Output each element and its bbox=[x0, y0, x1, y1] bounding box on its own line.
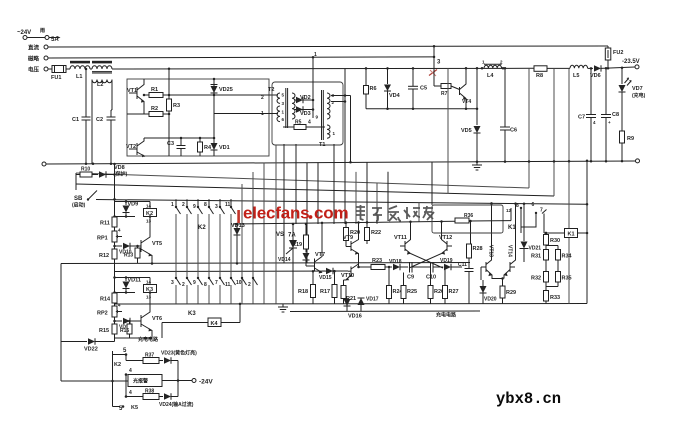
svg-text:VD7: VD7 bbox=[632, 86, 643, 92]
resistor R17 bbox=[334, 271, 336, 284]
resistor R3 bbox=[168, 69, 170, 99]
node left terminal bbox=[42, 162, 46, 166]
resistor R16 bbox=[129, 321, 131, 324]
wire bbox=[547, 67, 570, 69]
svg-text:R37: R37 bbox=[145, 353, 154, 359]
transformer T2 core bbox=[285, 88, 287, 128]
resistor R8 bbox=[534, 66, 547, 72]
svg-text:R8: R8 bbox=[536, 73, 543, 79]
relay coil K2 bbox=[149, 202, 151, 209]
svg-text:elecfans: elecfans bbox=[243, 204, 309, 223]
resistor R20 bbox=[345, 223, 347, 228]
svg-text:14: 14 bbox=[146, 204, 152, 209]
wire drop f bbox=[306, 163, 308, 264]
diode VD6 bbox=[594, 65, 601, 71]
wire to output bbox=[162, 380, 192, 382]
svg-text:R31: R31 bbox=[531, 254, 541, 260]
potentiometer RP2 bbox=[112, 306, 117, 317]
relay contacts K3 bbox=[175, 277, 177, 279]
svg-text:R14: R14 bbox=[100, 297, 111, 303]
wire left tall vertical bbox=[60, 264, 62, 382]
svg-text:VT9: VT9 bbox=[343, 235, 353, 241]
svg-text:R18: R18 bbox=[298, 289, 308, 295]
svg-text:C6: C6 bbox=[510, 128, 517, 134]
svg-text:VD16: VD16 bbox=[348, 314, 362, 320]
svg-text:R29: R29 bbox=[506, 290, 516, 296]
svg-text:VD20: VD20 bbox=[484, 297, 497, 303]
diode VD20 bbox=[482, 280, 484, 304]
svg-text:VD5: VD5 bbox=[461, 128, 472, 134]
svg-text:C9: C9 bbox=[407, 275, 414, 281]
diode VD17 bbox=[360, 298, 362, 311]
svg-text:VT13: VT13 bbox=[488, 245, 494, 257]
svg-text:R5: R5 bbox=[295, 120, 302, 126]
svg-text:VD25: VD25 bbox=[219, 87, 233, 93]
relay coil K1 bbox=[565, 229, 578, 238]
capacitor C11 bbox=[465, 268, 474, 270]
svg-text:FU2: FU2 bbox=[613, 50, 623, 56]
svg-text:VT6: VT6 bbox=[152, 316, 162, 322]
svg-text:RP2: RP2 bbox=[97, 311, 108, 317]
svg-text:R32: R32 bbox=[531, 276, 541, 282]
resistor R1 bbox=[144, 94, 149, 96]
wire drop j bbox=[355, 172, 357, 224]
svg-text:K1: K1 bbox=[508, 225, 516, 231]
wire VD25 down bbox=[213, 95, 215, 143]
relay coil K4 bbox=[162, 322, 208, 324]
svg-text:R34: R34 bbox=[562, 254, 573, 260]
svg-text:L2: L2 bbox=[97, 82, 103, 88]
svg-text:C11: C11 bbox=[458, 262, 467, 268]
svg-text:4: 4 bbox=[308, 120, 311, 126]
thyristor VS bbox=[292, 224, 294, 304]
relay contacts K2 bbox=[175, 199, 177, 207]
resistor R15 bbox=[112, 324, 117, 334]
svg-text:R6: R6 bbox=[370, 86, 377, 92]
node -24V output bbox=[192, 379, 196, 383]
wire cross coupling bbox=[411, 254, 444, 269]
svg-text:13: 13 bbox=[146, 219, 152, 224]
diode VD8 bbox=[92, 174, 98, 176]
resistor R24 bbox=[388, 267, 390, 286]
relay contact K1 pin12 bbox=[510, 208, 512, 221]
svg-text:2: 2 bbox=[248, 282, 251, 288]
LED VD7 bbox=[621, 68, 623, 84]
svg-text:R23: R23 bbox=[372, 258, 382, 264]
svg-text:VD21: VD21 bbox=[529, 246, 542, 252]
svg-text:C10: C10 bbox=[426, 275, 436, 281]
svg-text:8: 8 bbox=[204, 202, 207, 208]
svg-text:T1: T1 bbox=[319, 142, 325, 148]
zener VD21 bbox=[523, 204, 525, 241]
fuse 5A bbox=[45, 36, 49, 40]
wire R1 to T2 pin2 bbox=[163, 94, 278, 96]
transistor VT5 bbox=[140, 240, 142, 252]
svg-text:雨: 雨 bbox=[40, 27, 45, 34]
resistor R18 bbox=[312, 271, 314, 284]
svg-text:VT7: VT7 bbox=[315, 252, 325, 258]
diode VD25 bbox=[213, 79, 215, 95]
svg-text:10: 10 bbox=[236, 280, 242, 286]
resistor R26 bbox=[430, 273, 432, 286]
svg-text:C2: C2 bbox=[96, 117, 103, 123]
transistor VT12 bbox=[446, 241, 448, 251]
wire bottom link bbox=[61, 380, 128, 382]
svg-text:R28: R28 bbox=[473, 246, 483, 252]
ground bbox=[278, 306, 288, 308]
svg-text:T2: T2 bbox=[268, 87, 274, 93]
svg-text:K2: K2 bbox=[198, 225, 206, 231]
svg-text:11: 11 bbox=[225, 282, 231, 288]
svg-text:C5: C5 bbox=[420, 86, 427, 92]
capacitor C10 bbox=[430, 262, 432, 273]
wire center tap vertical bbox=[312, 57, 314, 118]
svg-text:(启动): (启动) bbox=[72, 202, 86, 209]
diode VD4 bbox=[387, 68, 389, 84]
capacitor C9 bbox=[409, 262, 411, 273]
box around R36 bbox=[432, 205, 503, 233]
wire drop e bbox=[295, 144, 297, 224]
svg-text:VD22: VD22 bbox=[84, 347, 98, 353]
svg-text:C7: C7 bbox=[578, 115, 585, 121]
svg-text:RP1: RP1 bbox=[97, 236, 108, 242]
wire L2 secondary right bbox=[111, 80, 113, 111]
svg-text:R13: R13 bbox=[124, 253, 133, 259]
svg-text:3: 3 bbox=[215, 204, 218, 210]
transistor VT1 bbox=[136, 87, 138, 99]
svg-text:8: 8 bbox=[516, 203, 519, 209]
diode VD2 bbox=[294, 99, 313, 101]
wire drop i bbox=[344, 68, 346, 224]
inductor L5 bbox=[570, 65, 588, 68]
svg-text:9: 9 bbox=[193, 280, 196, 286]
wire K3 top bbox=[115, 277, 151, 279]
svg-text:+: + bbox=[608, 120, 611, 125]
wire center rail bbox=[233, 221, 455, 224]
wire drop b bbox=[252, 172, 254, 304]
wire drop n bbox=[418, 203, 420, 222]
diode VD3 bbox=[294, 109, 313, 111]
svg-text:VS: VS bbox=[276, 232, 284, 238]
svg-text:VT14: VT14 bbox=[507, 245, 513, 257]
resistor R32 bbox=[544, 272, 549, 283]
capacitor C6 bbox=[504, 68, 506, 127]
svg-text:1: 1 bbox=[314, 52, 317, 58]
wire main left bus vertical bbox=[114, 164, 116, 342]
node output terminal lower bbox=[636, 159, 640, 163]
relay coil K3 bbox=[149, 278, 151, 285]
resistor R34 bbox=[546, 245, 558, 247]
svg-text:(充电): (充电) bbox=[632, 92, 646, 99]
svg-text:VD18: VD18 bbox=[389, 259, 402, 265]
svg-text:R1: R1 bbox=[151, 87, 158, 93]
svg-text:VD1: VD1 bbox=[219, 145, 230, 151]
svg-text:光报警: 光报警 bbox=[132, 378, 148, 385]
diode VD16 bbox=[346, 298, 348, 311]
svg-text:13: 13 bbox=[146, 295, 152, 300]
svg-text:R12: R12 bbox=[99, 253, 109, 259]
transistor VT7 bbox=[314, 259, 316, 272]
wire bbox=[161, 323, 163, 339]
resistor R6 bbox=[365, 68, 367, 85]
wire long rail 2 bbox=[76, 173, 529, 188]
svg-text:VD9: VD9 bbox=[128, 202, 139, 208]
diode VD14 bbox=[305, 249, 307, 253]
transformer T1 winding upper bbox=[327, 93, 330, 119]
capacitor C3 bbox=[180, 138, 182, 146]
wire long rail 1 bbox=[46, 161, 636, 164]
resistor R35 bbox=[556, 272, 561, 283]
wire long rail 3 bbox=[76, 184, 554, 196]
diode VD1 bbox=[211, 143, 218, 150]
svg-text:~24V: ~24V bbox=[17, 30, 31, 36]
resistor R38 bbox=[126, 396, 143, 398]
svg-text:磁略: 磁略 bbox=[28, 55, 40, 63]
switch SB bbox=[88, 191, 97, 200]
svg-text:R38: R38 bbox=[145, 389, 154, 395]
diode VD10 bbox=[115, 245, 123, 247]
diode VD23 bbox=[159, 360, 163, 362]
svg-text:K5: K5 bbox=[131, 405, 138, 411]
resistor R23 bbox=[371, 265, 385, 270]
transistor VT10 bbox=[350, 267, 352, 278]
fuse FU1 bbox=[52, 66, 66, 73]
resistor R5 bbox=[283, 126, 294, 128]
wire emitter bottom bbox=[115, 337, 153, 339]
svg-text:VD15: VD15 bbox=[319, 275, 332, 281]
wire bbox=[90, 68, 92, 70]
resistor R25 bbox=[403, 273, 405, 286]
svg-text:VT10: VT10 bbox=[341, 273, 354, 279]
svg-text:VT4: VT4 bbox=[462, 99, 471, 105]
transistor VT6 bbox=[140, 315, 142, 327]
diode VD15 bbox=[322, 270, 325, 272]
svg-text:R17: R17 bbox=[320, 289, 330, 295]
resistor R22 bbox=[366, 222, 368, 227]
svg-text:R22: R22 bbox=[371, 230, 381, 236]
svg-text:R10: R10 bbox=[81, 167, 90, 173]
svg-text:C1: C1 bbox=[72, 117, 79, 123]
diode VD5 bbox=[476, 68, 478, 125]
diode VD12 bbox=[115, 320, 123, 322]
svg-text:L1: L1 bbox=[76, 74, 82, 80]
resistor R2 bbox=[127, 113, 149, 115]
svg-text:2: 2 bbox=[182, 282, 185, 288]
node bus terminal 3 bbox=[44, 67, 48, 71]
ground bbox=[472, 164, 482, 166]
svg-text:SB: SB bbox=[74, 196, 83, 202]
wire osc row bbox=[358, 262, 360, 267]
wire K1 row bbox=[544, 232, 565, 234]
svg-text:VD8: VD8 bbox=[114, 165, 125, 171]
diode VD11 bbox=[125, 278, 127, 282]
svg-text:-24V: -24V bbox=[199, 379, 213, 386]
svg-text:VD23(黄色灯亮): VD23(黄色灯亮) bbox=[161, 350, 197, 357]
svg-text:7A: 7A bbox=[288, 233, 296, 239]
svg-text:2: 2 bbox=[261, 95, 264, 101]
wire bbox=[237, 210, 240, 223]
resistor R10 bbox=[76, 174, 80, 176]
svg-text:C8: C8 bbox=[612, 112, 619, 118]
transistor VT4 bbox=[451, 86, 460, 90]
capacitor C2 bbox=[110, 110, 112, 117]
svg-text:-23.5V: -23.5V bbox=[622, 59, 640, 65]
resistor R31 bbox=[544, 250, 549, 261]
svg-text:R25: R25 bbox=[407, 289, 417, 295]
svg-text:VD17: VD17 bbox=[366, 297, 379, 303]
svg-text:R33: R33 bbox=[550, 295, 560, 301]
transformer T1 core bbox=[321, 90, 323, 140]
wire lower bus continues bbox=[112, 67, 534, 70]
diode VD22 bbox=[61, 341, 87, 343]
wire drop r bbox=[553, 68, 555, 196]
svg-text:电压: 电压 bbox=[28, 66, 40, 74]
svg-text:充电电路: 充电电路 bbox=[138, 336, 159, 343]
wire drop c bbox=[263, 163, 265, 304]
svg-text:1: 1 bbox=[171, 202, 174, 208]
wire T1 pin2 out bbox=[331, 101, 345, 103]
svg-text:FU1: FU1 bbox=[51, 75, 61, 81]
svg-text:K2: K2 bbox=[114, 362, 121, 368]
svg-text:ybx8.cn: ybx8.cn bbox=[496, 390, 561, 408]
svg-text:VT11: VT11 bbox=[394, 235, 407, 241]
svg-text:4: 4 bbox=[129, 390, 132, 396]
potentiometer RP1 bbox=[112, 231, 117, 242]
resistor R7 bbox=[441, 84, 451, 89]
svg-text:VD19: VD19 bbox=[440, 258, 453, 264]
wire bbox=[66, 68, 70, 70]
transformer T2 secondary winding bbox=[292, 93, 295, 119]
resistor R29 bbox=[502, 279, 504, 287]
svg-text:R19: R19 bbox=[292, 242, 302, 248]
svg-text:VD3: VD3 bbox=[300, 111, 311, 117]
svg-text:VT5: VT5 bbox=[152, 241, 162, 247]
svg-text:VD14: VD14 bbox=[278, 257, 291, 263]
svg-text:3: 3 bbox=[171, 280, 174, 286]
svg-text:R4: R4 bbox=[204, 145, 212, 151]
svg-text:R16: R16 bbox=[120, 328, 129, 334]
wire collector row bbox=[144, 137, 214, 139]
resistor R28 bbox=[470, 221, 472, 244]
wire long rail 4 bbox=[96, 200, 587, 205]
capacitor C1 bbox=[85, 69, 87, 117]
svg-text:直流: 直流 bbox=[28, 44, 40, 52]
svg-text:VT12: VT12 bbox=[439, 235, 452, 241]
wire drop k bbox=[366, 162, 368, 224]
node ~24V input terminal bbox=[23, 36, 27, 40]
svg-text:8: 8 bbox=[204, 282, 207, 288]
svg-text:C3: C3 bbox=[167, 141, 174, 147]
wire emitter rail bbox=[366, 108, 477, 110]
transformer L2 bbox=[92, 66, 112, 69]
wire bbox=[434, 85, 441, 87]
svg-text:K4: K4 bbox=[211, 321, 219, 327]
diode VD9 bbox=[125, 202, 127, 206]
diode VD24 bbox=[159, 396, 163, 398]
wire drop o bbox=[431, 162, 433, 205]
wire drop g bbox=[317, 162, 319, 224]
inductor L1 bbox=[70, 66, 90, 69]
wire mid bus bbox=[48, 57, 434, 58]
svg-text:充电电路: 充电电路 bbox=[436, 312, 457, 319]
wire rail collect 2 bbox=[115, 270, 349, 273]
transistor VT2 bbox=[136, 143, 138, 155]
logo hanzi dianzi fashaoyou bbox=[356, 205, 434, 221]
wire K2 mid bbox=[115, 216, 136, 218]
svg-text:com: com bbox=[314, 204, 348, 223]
transistor VT9 bbox=[350, 241, 352, 251]
fuse FU2 bbox=[607, 46, 609, 48]
resistor R21 bbox=[343, 280, 345, 286]
svg-text:R3: R3 bbox=[173, 103, 180, 109]
transformer box bbox=[272, 82, 343, 145]
svg-text:R9: R9 bbox=[627, 136, 634, 142]
diode VD18 bbox=[385, 266, 392, 268]
svg-text:9: 9 bbox=[193, 204, 196, 210]
transformer T1 winding lower bbox=[327, 125, 330, 138]
resistor R19 bbox=[305, 224, 307, 235]
wire L2 secondary left bbox=[91, 80, 93, 164]
wire drop h bbox=[333, 144, 335, 224]
resistor R14 bbox=[112, 293, 117, 303]
svg-text:14: 14 bbox=[146, 280, 152, 285]
diode VD19 bbox=[444, 264, 451, 270]
svg-text:R30: R30 bbox=[550, 238, 560, 244]
svg-text:11: 11 bbox=[225, 202, 231, 208]
wire vertical join bbox=[177, 361, 179, 397]
resistor R11 bbox=[112, 217, 117, 227]
svg-text:12: 12 bbox=[506, 208, 512, 213]
wire drop a bbox=[241, 184, 243, 304]
wire drop l bbox=[376, 183, 378, 224]
wire bottom rail bbox=[115, 303, 588, 306]
svg-text:2: 2 bbox=[182, 202, 185, 208]
svg-text:R7: R7 bbox=[441, 91, 448, 97]
wire left branch vertical bbox=[75, 173, 77, 190]
svg-text:R27: R27 bbox=[449, 289, 459, 295]
svg-text:K3: K3 bbox=[188, 311, 196, 317]
resistor R30 bbox=[544, 235, 549, 246]
wire K3 mid bbox=[115, 292, 136, 294]
resistor R37 bbox=[126, 360, 143, 362]
svg-text:VD24(输A过流): VD24(输A过流) bbox=[159, 401, 194, 408]
wire drop s bbox=[568, 68, 570, 303]
wire drop c2 bbox=[275, 145, 277, 304]
wire K2 top bbox=[115, 201, 151, 203]
wire drop q bbox=[528, 68, 530, 188]
wire relay K5 left bus bbox=[112, 351, 114, 407]
wire drop m bbox=[387, 172, 389, 221]
svg-text:7: 7 bbox=[215, 280, 218, 286]
wire ground rail bbox=[290, 310, 480, 313]
svg-text:VT2: VT2 bbox=[126, 144, 136, 150]
diode VD13 bbox=[236, 224, 238, 263]
alarm box bbox=[128, 375, 162, 387]
resistor R13 bbox=[137, 246, 139, 248]
svg-text:L4: L4 bbox=[487, 73, 494, 79]
svg-text:R35: R35 bbox=[562, 276, 572, 282]
wire drop p bbox=[447, 68, 449, 193]
wire bbox=[125, 375, 127, 397]
wire right frame bbox=[586, 161, 588, 304]
wire bbox=[27, 37, 45, 39]
wire drop d bbox=[283, 144, 285, 263]
svg-text:K1: K1 bbox=[568, 232, 575, 238]
resistor R36 bbox=[455, 218, 469, 223]
resistor R4 bbox=[199, 138, 201, 142]
svg-text:R15: R15 bbox=[99, 328, 109, 334]
svg-text:(保护): (保护) bbox=[114, 171, 128, 178]
